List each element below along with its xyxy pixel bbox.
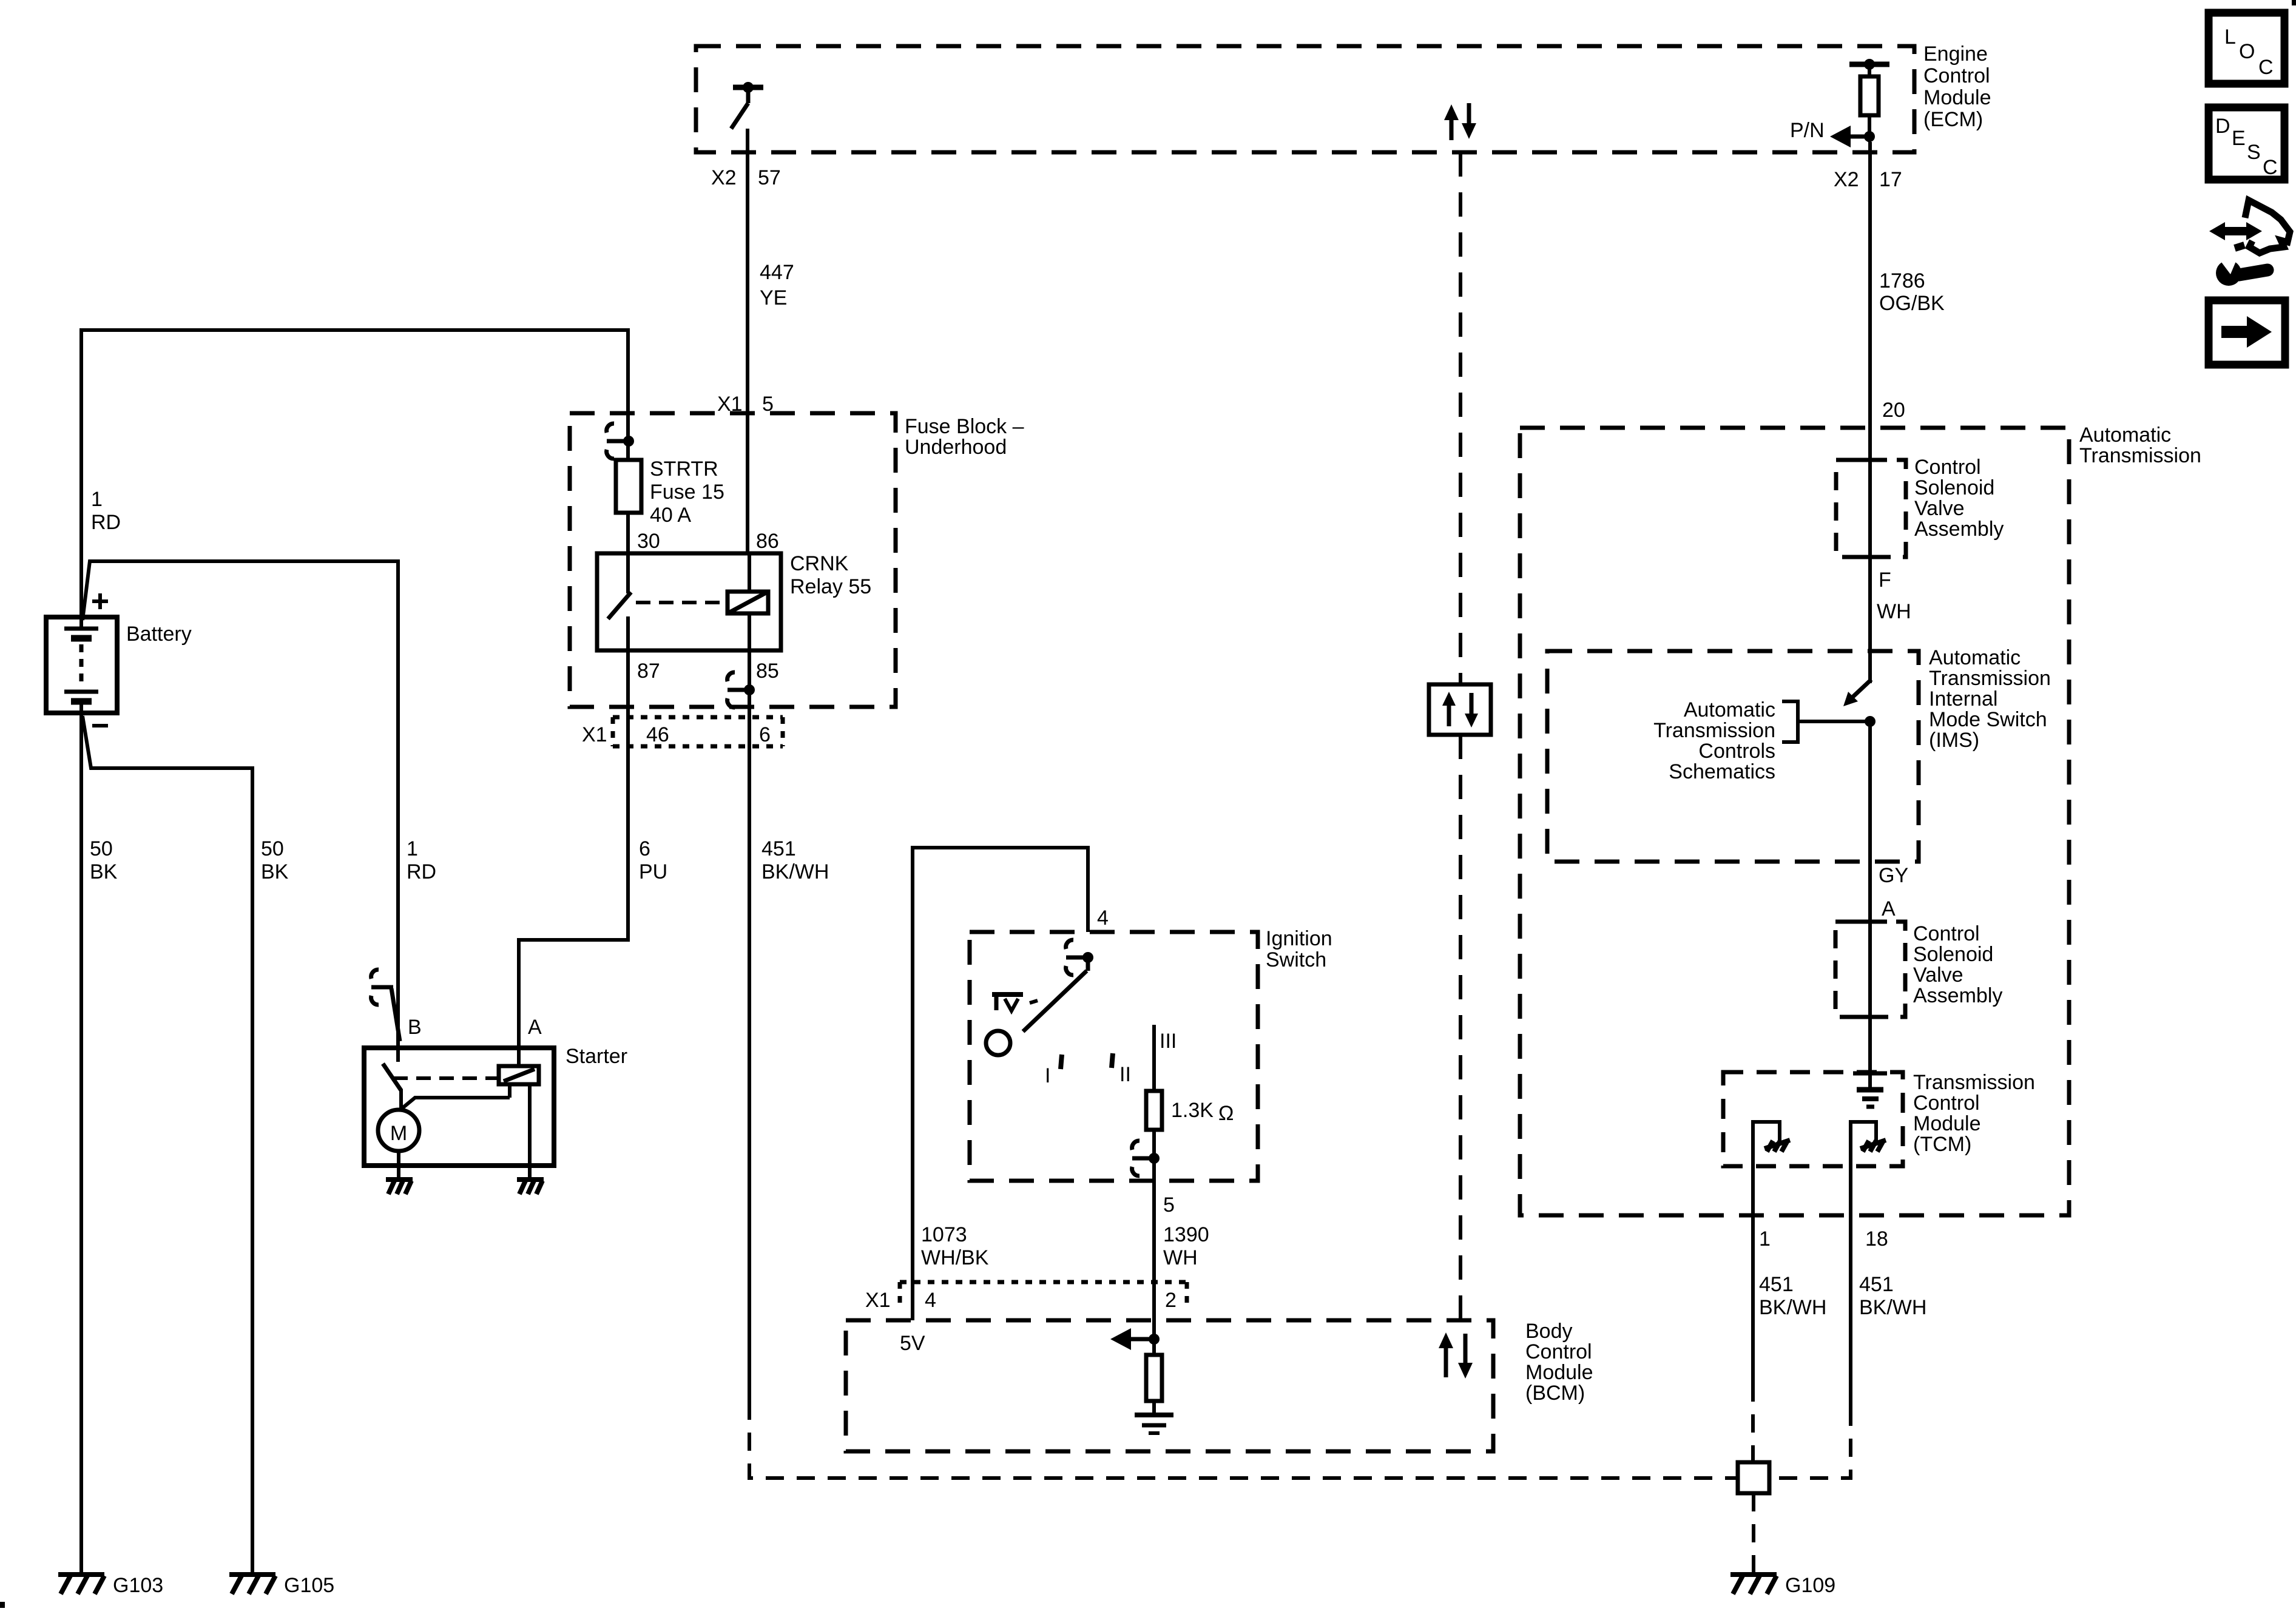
svg-text:Starter: Starter — [566, 1045, 627, 1068]
svg-text:Underhood: Underhood — [905, 436, 1007, 459]
control solenoid valve assembly 1 label — [1914, 456, 2004, 541]
starter motor ground — [386, 1180, 413, 1194]
svg-text:Automatic: Automatic — [1929, 646, 2021, 669]
automatic transmission label — [2079, 424, 2201, 467]
BCM internal ground — [1135, 1415, 1173, 1433]
svg-text:Switch: Switch — [1266, 948, 1326, 971]
svg-text:Engine: Engine — [1923, 42, 1988, 66]
svg-text:Automatic: Automatic — [1684, 698, 1775, 721]
svg-text:BK: BK — [261, 860, 289, 883]
svg-text:1786: 1786 — [1879, 269, 1925, 292]
svg-text:RD: RD — [407, 860, 436, 883]
svg-text:Transmission: Transmission — [1913, 1071, 2035, 1094]
resistor 1.3K ohm — [1146, 1091, 1234, 1130]
svg-text:WH: WH — [1877, 600, 1911, 623]
svg-text:BK: BK — [90, 860, 118, 883]
wire 1073 WH/BK BCM to ignition switch pin 4 — [913, 848, 1088, 1320]
wire label 50 BK branch — [261, 837, 289, 883]
svg-text:86: 86 — [756, 530, 779, 553]
svg-text:Ignition: Ignition — [1266, 927, 1332, 950]
pin label X2 17 — [1834, 168, 1902, 191]
control solenoid valve assembly box 2 — [1835, 922, 1905, 1017]
svg-text:Control: Control — [1913, 1092, 1980, 1115]
battery plus sign — [92, 593, 108, 609]
dashed continuation TCM pin 1 — [1751, 1383, 1755, 1462]
ECM label text — [1923, 42, 1991, 131]
svg-text:30: 30 — [637, 530, 660, 553]
starter solenoid ground wire — [528, 1084, 532, 1178]
battery minus sign — [92, 724, 108, 727]
svg-text:17: 17 — [1879, 168, 1902, 191]
svg-text:F: F — [1879, 569, 1891, 592]
BCM dashed box — [846, 1320, 1493, 1451]
svg-text:50: 50 — [261, 837, 284, 860]
pin label X1 5 — [717, 393, 774, 416]
svg-text:G103: G103 — [113, 1574, 163, 1597]
wire label 50 BK — [90, 837, 118, 883]
svg-text:YE: YE — [760, 286, 787, 309]
BCM serial data arrows — [1439, 1332, 1473, 1379]
svg-text:Fuse 15: Fuse 15 — [650, 481, 724, 504]
starter motor M — [378, 1110, 419, 1178]
starter assembly box — [364, 1048, 554, 1166]
svg-text:Fuse Block –: Fuse Block – — [905, 415, 1024, 438]
reference Automatic Transmission Controls Schematics — [1653, 698, 1870, 783]
svg-text:P/N: P/N — [1790, 119, 1825, 142]
control solenoid valve assembly 2 label — [1913, 922, 2002, 1007]
ignition switch dashed box — [970, 932, 1258, 1181]
svg-text:A: A — [1882, 897, 1896, 920]
svg-text:(IMS): (IMS) — [1929, 729, 1979, 752]
IMS switch lever — [1843, 680, 1871, 706]
svg-text:5V: 5V — [900, 1332, 925, 1355]
svg-text:4: 4 — [925, 1289, 936, 1312]
switch S1 inside ECM (crank request) — [731, 82, 763, 129]
splice clip below resistor — [1132, 1130, 1160, 1176]
svg-text:Module: Module — [1525, 1361, 1593, 1384]
svg-text:451: 451 — [1759, 1273, 1794, 1296]
ignition lock position glyph — [992, 994, 1038, 1011]
svg-text:2: 2 — [1165, 1289, 1177, 1312]
svg-text:PU: PU — [639, 860, 667, 883]
svg-text:1: 1 — [1759, 1227, 1771, 1251]
svg-text:Internal: Internal — [1929, 687, 1997, 711]
svg-text:Transmission: Transmission — [1929, 667, 2051, 690]
IMS dashed box — [1547, 651, 1919, 862]
fuse element inside ECM right (P/N pull-up) — [1849, 59, 1889, 142]
svg-text:18: 18 — [1865, 1227, 1888, 1251]
svg-text:BK/WH: BK/WH — [761, 860, 829, 883]
svg-text:40 A: 40 A — [650, 504, 691, 527]
legend box LOC — [2209, 13, 2284, 84]
svg-text:57: 57 — [758, 166, 781, 189]
svg-text:Assembly: Assembly — [1913, 984, 2002, 1007]
legend box DESC — [2209, 107, 2284, 180]
svg-text:1: 1 — [407, 837, 418, 860]
svg-text:Controls: Controls — [1698, 740, 1775, 763]
svg-text:451: 451 — [761, 837, 796, 860]
svg-text:Automatic: Automatic — [2079, 424, 2171, 447]
svg-text:Ω: Ω — [1218, 1102, 1234, 1125]
svg-text:Module: Module — [1913, 1112, 1981, 1135]
pin label F and wire color WH — [1877, 569, 1911, 623]
wire label 1073 WH/BK — [921, 1223, 989, 1269]
junction splice square — [1738, 1462, 1769, 1493]
ignition switch contact wire — [1152, 1025, 1156, 1091]
battery B1 — [46, 617, 117, 713]
relay CRNK Relay 55 — [597, 553, 781, 650]
svg-text:Battery: Battery — [126, 623, 192, 646]
fuse block underhood dashed box — [570, 413, 896, 707]
ignition position II tick — [1112, 1053, 1131, 1086]
svg-text:5: 5 — [1163, 1193, 1175, 1217]
svg-text:451: 451 — [1859, 1273, 1894, 1296]
svg-text:20: 20 — [1882, 399, 1905, 422]
wire label 451 BK/WH right — [1859, 1273, 1926, 1319]
splice clip on fuse feed — [607, 424, 634, 459]
inline connector clip at starter B — [371, 970, 400, 1041]
wire battery negative to G103 (50 BK) — [79, 713, 83, 1573]
svg-text:46: 46 — [646, 723, 669, 746]
TCM entry tick — [1853, 1072, 1887, 1076]
wire label GY / pin A — [1879, 864, 1908, 920]
starter solenoid coil — [401, 1048, 539, 1109]
TCM dashed box — [1723, 1072, 1903, 1166]
TCM chassis ground left — [1753, 1122, 1790, 1166]
svg-text:1073: 1073 — [921, 1223, 967, 1246]
svg-text:Solenoid: Solenoid — [1913, 943, 1993, 966]
svg-text:C: C — [2263, 156, 2278, 179]
svg-text:M: M — [390, 1122, 407, 1145]
serial data boxed arrows — [1429, 684, 1491, 735]
fuse block label — [905, 415, 1024, 459]
connector X1 strip of BCM — [865, 1282, 1187, 1312]
wire label 1 RD — [91, 488, 121, 534]
svg-text:X2: X2 — [1834, 168, 1859, 191]
svg-text:6: 6 — [759, 723, 771, 746]
dashed wire junction to G109 — [1752, 1493, 1755, 1573]
svg-text:(ECM): (ECM) — [1923, 108, 1983, 131]
svg-text:Control: Control — [1525, 1340, 1592, 1363]
svg-text:O: O — [2239, 40, 2255, 63]
wire 1390 WH to BCM — [1152, 1158, 1156, 1339]
svg-text:Mode Switch: Mode Switch — [1929, 708, 2047, 731]
svg-text:Transmission: Transmission — [1653, 719, 1775, 742]
svg-text:Transmission: Transmission — [2079, 444, 2201, 467]
splice clip on relay 85 output — [728, 672, 755, 707]
svg-text:I: I — [1045, 1064, 1050, 1087]
wire 451 BK/WH relay 85 down — [748, 650, 751, 1402]
wire IMS to CSVA2 — [1868, 721, 1872, 1089]
svg-text:RD: RD — [91, 511, 121, 534]
ignition switch label — [1266, 927, 1332, 971]
svg-text:Assembly: Assembly — [1914, 518, 2004, 541]
wire TCM pin 18 451 BK/WH — [1849, 1166, 1852, 1408]
svg-text:S: S — [2247, 141, 2261, 164]
control solenoid valve assembly box 1 — [1836, 460, 1906, 557]
pin label X2 57 — [711, 166, 781, 189]
svg-text:OG/BK: OG/BK — [1879, 292, 1945, 315]
ignition key circle — [986, 1031, 1010, 1055]
svg-text:L: L — [2224, 25, 2236, 49]
wire TCM pin 1 451 BK/WH — [1751, 1166, 1755, 1383]
BCM input arrow node — [1110, 1328, 1160, 1350]
svg-text:4: 4 — [1097, 906, 1109, 930]
svg-text:WH: WH — [1163, 1246, 1198, 1269]
wire label 1390 WH — [1163, 1223, 1209, 1269]
splice clip at ignition pin 4 — [1066, 940, 1093, 975]
dashed continuation TCM pin 18 — [1769, 1408, 1851, 1478]
wire 6 PU relay 87 to starter A — [519, 650, 628, 1048]
automatic transmission dashed box — [1520, 428, 2069, 1215]
ECM module dashed box — [696, 46, 1914, 152]
svg-text:CRNK: CRNK — [790, 552, 849, 575]
BCM pull-down resistor — [1146, 1339, 1162, 1415]
starter solenoid ground — [517, 1180, 544, 1194]
svg-text:III: III — [1160, 1030, 1177, 1053]
svg-text:X1: X1 — [865, 1289, 891, 1312]
fuse STRTR Fuse 15 40 A — [616, 457, 724, 527]
TCM internal ground for IMS — [1857, 1017, 1883, 1107]
svg-text:Schematics: Schematics — [1669, 760, 1775, 783]
battery positive wire 1 RD to fuse block — [81, 330, 628, 618]
starter solenoid switch — [383, 1048, 498, 1110]
svg-text:(TCM): (TCM) — [1913, 1133, 1971, 1156]
svg-text:Control: Control — [1914, 456, 1981, 479]
svg-text:1: 1 — [91, 488, 103, 511]
wire label 1786 OG/BK — [1879, 269, 1945, 315]
BCM label — [1525, 1320, 1593, 1405]
page corner marks — [0, 1602, 5, 1608]
IMS wiper node — [1865, 716, 1876, 727]
ignition position I tick — [1045, 1055, 1062, 1087]
svg-text:WH/BK: WH/BK — [921, 1246, 989, 1269]
svg-text:Module: Module — [1923, 86, 1991, 109]
wire 451 BK/WH dashed run to G109 junction — [749, 1402, 1738, 1478]
svg-text:II: II — [1119, 1063, 1131, 1086]
svg-text:Control: Control — [1923, 64, 1990, 87]
svg-text:Body: Body — [1525, 1320, 1573, 1343]
svg-text:BK/WH: BK/WH — [1859, 1296, 1926, 1319]
ground G105 — [229, 1574, 334, 1597]
svg-text:X2: X2 — [711, 166, 737, 189]
svg-text:85: 85 — [756, 660, 779, 683]
wire label 451 BK/WH — [761, 837, 829, 883]
legend icon hand with wrench — [2209, 200, 2290, 286]
svg-text:Control: Control — [1913, 922, 1980, 945]
wire label 1 RD starter — [407, 837, 436, 883]
wire label 447 YE — [760, 261, 794, 309]
svg-text:50: 50 — [90, 837, 113, 860]
svg-text:447: 447 — [760, 261, 794, 284]
wire 1786 OG/BK from ECM X2-17 to transmission — [1868, 142, 1872, 683]
svg-text:X1: X1 — [582, 723, 607, 746]
svg-text:GY: GY — [1879, 864, 1908, 887]
svg-text:Relay 55: Relay 55 — [790, 575, 871, 598]
svg-text:E: E — [2232, 127, 2246, 150]
svg-text:(BCM): (BCM) — [1525, 1382, 1585, 1405]
wire battery positive to starter B (1 RD) — [83, 561, 398, 1048]
svg-text:C: C — [2258, 56, 2274, 79]
wire label 6 PU — [639, 837, 667, 883]
svg-text:G109: G109 — [1785, 1574, 1835, 1597]
svg-text:Valve: Valve — [1913, 964, 1963, 987]
connector X1 strip of fuse block — [582, 717, 783, 746]
wire label 451 BK/WH left — [1759, 1273, 1826, 1319]
svg-text:G105: G105 — [284, 1574, 334, 1597]
ground G103 — [58, 1574, 163, 1597]
serial data dashed line ECM to BCM — [1459, 152, 1462, 1320]
svg-text:6: 6 — [639, 837, 650, 860]
IMS label — [1929, 646, 2051, 752]
svg-text:Solenoid: Solenoid — [1914, 476, 1994, 499]
svg-text:B: B — [408, 1016, 422, 1039]
serial data arrows at ECM — [1444, 103, 1476, 140]
legend box forward arrow — [2209, 300, 2285, 365]
svg-text:STRTR: STRTR — [650, 457, 718, 481]
wire 447 YE from ECM X2-57 to relay 86 — [746, 129, 749, 553]
wire battery negative branch to G105 (50 BK) — [83, 716, 252, 1573]
svg-text:1390: 1390 — [1163, 1223, 1209, 1246]
wire fuse to relay 30 — [626, 513, 630, 553]
svg-text:BK/WH: BK/WH — [1759, 1296, 1826, 1319]
svg-text:D: D — [2215, 115, 2230, 138]
relay label — [790, 552, 871, 598]
svg-text:A: A — [528, 1016, 542, 1039]
TCM chassis ground right — [1851, 1122, 1886, 1166]
node P/N with arrow — [1790, 119, 1875, 147]
svg-text:87: 87 — [637, 660, 660, 683]
ignition switch lever — [1023, 957, 1088, 1031]
ground G109 — [1730, 1574, 1835, 1597]
TCM label — [1913, 1071, 2035, 1156]
svg-text:1.3K: 1.3K — [1171, 1099, 1214, 1122]
svg-text:Valve: Valve — [1914, 497, 1965, 520]
